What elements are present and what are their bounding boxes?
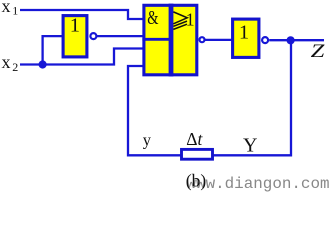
svg-text:y: y (143, 130, 152, 149)
svg-text:x: x (2, 0, 11, 16)
svg-text:1: 1 (186, 9, 195, 29)
svg-text:1: 1 (239, 22, 249, 44)
svg-text:www.diangon.com: www.diangon.com (187, 175, 329, 193)
svg-text:&: & (147, 7, 159, 29)
svg-text:(b): (b) (186, 171, 207, 191)
svg-text:x: x (2, 52, 11, 72)
svg-text:1: 1 (70, 14, 80, 36)
svg-text:Δt: Δt (186, 129, 203, 149)
svg-text:2: 2 (12, 60, 18, 74)
svg-text:Z: Z (311, 40, 326, 62)
svg-text:1: 1 (12, 3, 18, 17)
svg-text:Y: Y (243, 135, 257, 157)
